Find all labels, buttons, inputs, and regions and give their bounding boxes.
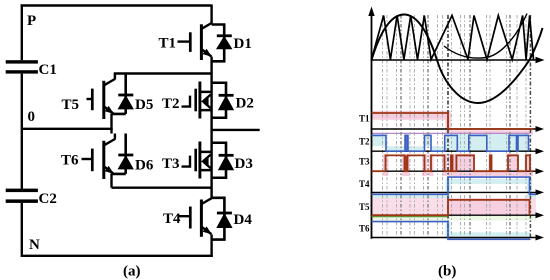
axis: T2 row axis with arrow: [371, 150, 537, 152]
svg-text:T5: T5: [359, 202, 370, 212]
signal T1 gate trace: [372, 113, 534, 129]
band: T5 pink full band: [371, 198, 537, 215]
svg-text:D6: D6: [135, 158, 154, 174]
gridline: dark dash-dot line at period end: [529, 15, 531, 240]
svg-text:C1: C1: [39, 62, 57, 78]
wire: left DC rail middle (C1 to C2): [21, 74, 23, 189]
diode D4: [217, 213, 232, 227]
diode D3: [219, 155, 234, 169]
wire: D2 freewheel loop: [212, 83, 226, 118]
wire: D1 freewheel loop: [211, 25, 224, 62]
transistor T4 (IGBT): [178, 198, 212, 237]
transistor T5 (IGBT): [87, 74, 115, 134]
svg-text:T6: T6: [359, 224, 370, 234]
signal T2 narrow pulse solid bar: [405, 135, 409, 151]
carrier triangle waveform: [372, 16, 534, 60]
signal T3 narrow notch solid bar: [404, 155, 408, 171]
wire: 0 rail to middle branch: [22, 128, 113, 130]
axis: T3 row axis with arrow: [371, 170, 537, 172]
wire: main right branch vertical: [210, 5, 212, 258]
axis: T5 row axis with arrow: [371, 214, 537, 216]
axis: T6 row axis with arrow: [371, 237, 537, 239]
svg-text:N: N: [29, 237, 40, 253]
band: T6 cyan ribbon along trace: [446, 222, 531, 240]
svg-text:D1: D1: [234, 36, 252, 52]
svg-text:D2: D2: [236, 96, 254, 112]
axis: T4 row axis with arrow: [371, 191, 537, 193]
svg-text:T3: T3: [162, 156, 180, 172]
diode D5: [118, 95, 133, 109]
gridline: dark dash-dot line at half period: [447, 15, 449, 240]
band: T4 cyan ribbon along trace: [372, 179, 537, 199]
band: T3 pink conduction bands: [383, 154, 533, 176]
wire: output node line: [212, 129, 260, 131]
signal T2 gate trace: [372, 135, 529, 151]
svg-text:T4: T4: [163, 211, 181, 227]
svg-text:T2: T2: [162, 96, 180, 112]
svg-text:T2: T2: [359, 137, 370, 147]
svg-text:T1: T1: [359, 114, 370, 124]
capacitor C2: [6, 189, 38, 203]
transistor T2 (reverse IGBT): [182, 82, 212, 119]
signal T5 gate trace: [372, 200, 530, 215]
transistor T6 (IGBT): [82, 134, 115, 188]
axis: top horizontal axis with arrow: [371, 59, 537, 61]
wire: left DC rail lower (C2 to N): [21, 203, 23, 255]
svg-text:C2: C2: [39, 191, 57, 207]
transistor T1 (IGBT): [178, 23, 212, 60]
svg-text:T5: T5: [62, 97, 80, 113]
wire: D3 freewheel loop: [212, 143, 226, 178]
band: T5 mint band below axis: [371, 216, 537, 221]
wire: N bottom rail: [21, 255, 213, 257]
signal T3 gate trace: [372, 155, 534, 171]
secondary modulation curve: [444, 14, 527, 59]
wire: D5 freewheel loop: [112, 74, 126, 114]
diode D2: [219, 95, 234, 109]
wire: D4 freewheel loop: [211, 198, 224, 240]
wire: T5 collector junction wire to T1/T2 node: [114, 72, 212, 74]
signal T5 green reference line: [372, 216, 449, 218]
axis: top vertical axis with arrow: [371, 11, 373, 239]
signal T4 gate trace: [372, 177, 537, 194]
band: T2 cyan band top purple edge: [372, 132, 530, 134]
svg-text:D5: D5: [135, 97, 153, 113]
svg-text:D4: D4: [234, 212, 253, 228]
modulating sine wave: [372, 15, 543, 104]
diode D6: [118, 155, 133, 169]
svg-text:(b): (b): [438, 264, 456, 280]
svg-text:(a): (a): [123, 264, 141, 280]
wire: left DC rail upper (P to C1): [21, 5, 23, 61]
transistor T3 (reverse IGBT): [182, 142, 212, 179]
diode D1: [217, 36, 232, 49]
svg-text:D3: D3: [235, 156, 253, 172]
svg-text:P: P: [27, 13, 36, 29]
band: T2 cyan conduction bands: [372, 134, 530, 151]
band: T1 pink ribbon along trace: [372, 111, 534, 135]
svg-text:T6: T6: [61, 153, 79, 169]
svg-text:T4: T4: [359, 179, 370, 189]
capacitor C1: [6, 60, 38, 73]
band: T5 pink stronger second half: [448, 199, 530, 216]
axis: T1 row axis with arrow: [371, 128, 537, 130]
svg-text:T3: T3: [359, 157, 370, 167]
svg-text:0: 0: [28, 109, 36, 125]
wire: T6 emitter junction wire to T3/T4 node: [112, 186, 212, 188]
wire: P top rail: [21, 4, 212, 6]
svg-text:T1: T1: [159, 36, 177, 52]
gridline: thicker gray dash-dot lines: [401, 15, 510, 240]
wire: D6 freewheel loop: [112, 134, 126, 174]
signal T6 gate trace: [372, 222, 531, 240]
gridline: gray dash-dot sampling lines: [383, 15, 527, 240]
